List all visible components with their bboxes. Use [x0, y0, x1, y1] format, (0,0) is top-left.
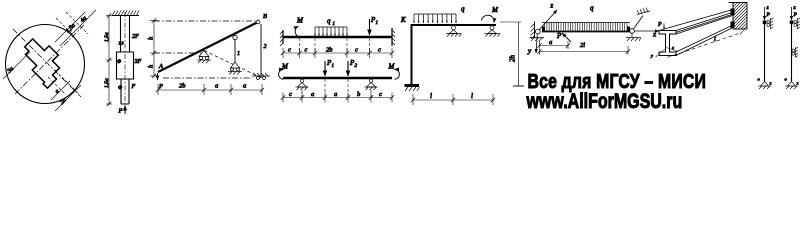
svg-text:x: x: [652, 31, 657, 39]
right pin: [630, 29, 635, 34]
svg-text:B: B: [263, 13, 267, 20]
force P at free end: [663, 24, 665, 30]
dimension 3a: [3, 52, 30, 79]
svg-text:l: l: [471, 92, 473, 100]
svg-text:c: c: [355, 47, 358, 54]
svg-text:M: M: [491, 6, 499, 14]
svg-text:c: c: [378, 47, 381, 54]
dashed displaced line: [204, 51, 262, 79]
frame beam: [411, 24, 496, 26]
svg-text:1,5a: 1,5a: [104, 32, 110, 42]
svg-text:A: A: [158, 63, 163, 70]
dimension 1,5a: [55, 12, 85, 42]
circle outline: [6, 25, 85, 104]
svg-text:y: y: [650, 53, 653, 58]
svg-text:o: o: [758, 77, 761, 82]
force P arrow at bottom: [124, 106, 126, 115]
dimension 2l: [540, 51, 629, 53]
svg-text:a: a: [215, 83, 218, 90]
rod 2 vertical at B: [260, 24, 262, 78]
svg-text:x: x: [769, 81, 772, 86]
svg-text:c: c: [288, 47, 291, 54]
dash-dot middle level line: [154, 52, 201, 54]
rod 1 with pin: [233, 35, 237, 39]
svg-text:q: q: [590, 4, 594, 12]
svg-text:o: o: [785, 77, 788, 82]
column 1: [758, 5, 774, 89]
svg-text:l: l: [714, 36, 716, 43]
svg-text:x: x: [796, 81, 799, 86]
bottom dimension line 2b,a,a: [158, 89, 262, 91]
svg-text:1,5a: 1,5a: [104, 78, 110, 88]
2h dimension: [500, 21, 521, 23]
svg-text:2b: 2b: [326, 47, 333, 54]
support under rod 1: [228, 62, 242, 75]
distributed load q1 comb: [315, 27, 347, 36]
force P2: [347, 61, 349, 76]
svg-text:4a: 4a: [79, 15, 88, 24]
svg-text:z: z: [550, 2, 554, 10]
svg-text:К: К: [400, 16, 406, 24]
right support: [365, 79, 378, 90]
right wall: [391, 28, 393, 46]
svg-text:1: 1: [333, 22, 336, 27]
svg-text:P: P: [766, 12, 771, 18]
moment M arc at right: [482, 15, 495, 22]
svg-text:2: 2: [264, 44, 267, 50]
column shaft: [791, 24, 793, 82]
svg-text:q: q: [327, 17, 331, 25]
support A under beam: [446, 26, 462, 37]
svg-text:1,5a: 1,5a: [65, 23, 77, 35]
top fixed support hatch: [112, 15, 139, 17]
top roller bracket: [767, 18, 773, 29]
frame column: [411, 24, 413, 84]
support under right pin: [626, 33, 641, 41]
svg-text:a: a: [549, 39, 552, 46]
dash-dot bottom level line: [163, 77, 252, 79]
svg-text:www.AllForMGSU.ru: www.AllForMGSU.ru: [526, 89, 683, 113]
svg-text:M: M: [388, 63, 396, 71]
I-beam long edges: [659, 10, 734, 56]
dash-dot top level line: [154, 20, 257, 22]
svg-text:a: a: [311, 91, 314, 98]
cross (plus) profile rotated 45: [15, 34, 69, 88]
beam: [283, 77, 392, 79]
svg-text:3F: 3F: [134, 59, 142, 65]
svg-text:F: F: [131, 84, 136, 90]
column shaft: [764, 24, 766, 82]
left moment M arc: [279, 69, 284, 79]
svg-text:3a: 3a: [6, 66, 15, 75]
dimension a: [51, 81, 70, 100]
bar centerline: [124, 12, 126, 106]
middle roller bracket: [792, 47, 798, 58]
beam: [283, 36, 392, 38]
dimension 2a: [55, 85, 81, 111]
svg-text:q: q: [461, 5, 465, 13]
bottom pin support: [785, 82, 798, 90]
column 2: [785, 5, 800, 89]
svg-text:2h: 2h: [509, 55, 517, 63]
svg-text:Φ: Φ: [117, 59, 122, 65]
svg-text:2: 2: [355, 64, 358, 69]
svg-text:M: M: [281, 63, 289, 71]
force arrow with z,P labels: [764, 7, 766, 20]
moment M arc: [295, 26, 303, 37]
z axis: [539, 10, 557, 30]
left support: [296, 79, 309, 90]
svg-text:1: 1: [376, 21, 379, 26]
I-section face at free end: [659, 31, 676, 56]
left wall: [282, 30, 284, 44]
beam with full-span load comb: [542, 22, 630, 24]
svg-text:c: c: [289, 91, 292, 98]
lower narrow segment: [121, 79, 129, 104]
distributed load q comb: [414, 14, 456, 23]
svg-text:1: 1: [237, 51, 240, 57]
bottom dimension l,l: [413, 99, 493, 101]
svg-text:y: y: [527, 47, 532, 55]
svg-text:2b: 2b: [179, 83, 186, 90]
svg-text:z: z: [793, 5, 797, 11]
left wall hatch: [534, 22, 536, 38]
svg-text:c: c: [379, 91, 382, 98]
node B circle and label: [256, 20, 260, 24]
support B under beam: [485, 26, 501, 37]
dimension a: [540, 45, 569, 47]
svg-text:2F: 2F: [132, 34, 139, 40]
left dimension line: [108, 16, 110, 105]
x axis: [634, 30, 659, 32]
svg-text:a: a: [243, 83, 246, 90]
support 1 under bar (pivot): [197, 51, 211, 64]
svg-text:P: P: [556, 32, 562, 40]
y axis: [536, 34, 537, 53]
force P1: [324, 61, 326, 76]
force P diagonal: [562, 33, 571, 42]
svg-text:l: l: [430, 92, 432, 100]
svg-text:x: x: [671, 45, 674, 50]
upper narrow segment: [121, 16, 130, 53]
extension dashed lines top-right: [56, 18, 74, 36]
fixed base of column: [405, 84, 420, 87]
dimension line c,a,a,b,c: [283, 97, 392, 99]
centerline NE-SW dash-dot: [15, 25, 84, 94]
inclined rod anchor top right: [633, 16, 643, 30]
svg-text:c: c: [305, 47, 308, 54]
svg-text:h: h: [148, 37, 155, 40]
right moment M arc: [395, 69, 400, 79]
svg-text:b: b: [357, 91, 361, 98]
dashed length dimension l: [667, 33, 742, 58]
svg-text:P: P: [657, 22, 662, 28]
svg-text:z: z: [766, 5, 770, 11]
top roller bracket: [794, 18, 800, 29]
top joint square: [790, 21, 794, 25]
top joint square: [763, 21, 767, 25]
rigid bar A-B: [158, 22, 258, 72]
svg-text:P: P: [118, 108, 123, 115]
vertical dimension line h,h: [153, 21, 155, 77]
svg-text:h: h: [148, 65, 155, 68]
dashed projection lines: [300, 38, 370, 53]
bottom pin support: [758, 82, 771, 90]
middle wide segment: [117, 52, 134, 79]
left pin: [535, 29, 540, 34]
force arrow with z,P labels: [791, 7, 793, 20]
anchor at bottom of rod 2: [252, 73, 270, 80]
dimension 4a: [60, 10, 96, 46]
svg-text:a: a: [334, 91, 337, 98]
dashed projection lines: [302, 79, 371, 97]
force P1: [369, 19, 371, 35]
svg-text:1: 1: [332, 64, 335, 69]
wall block hatched: [729, 3, 748, 30]
dimension line c,c,2b,c,c: [283, 52, 392, 54]
svg-text:P: P: [793, 12, 798, 18]
svg-text:M: M: [296, 17, 304, 25]
svg-text:2l: 2l: [580, 42, 585, 49]
svg-text:2a: 2a: [59, 97, 67, 105]
small axes at free end: [656, 48, 667, 58]
svg-text:Φ: Φ: [118, 85, 123, 91]
extension dashed lines bottom-right: [55, 70, 79, 94]
force P at A: [157, 73, 159, 80]
centerline NW-SE dash-dot: [13, 29, 81, 97]
